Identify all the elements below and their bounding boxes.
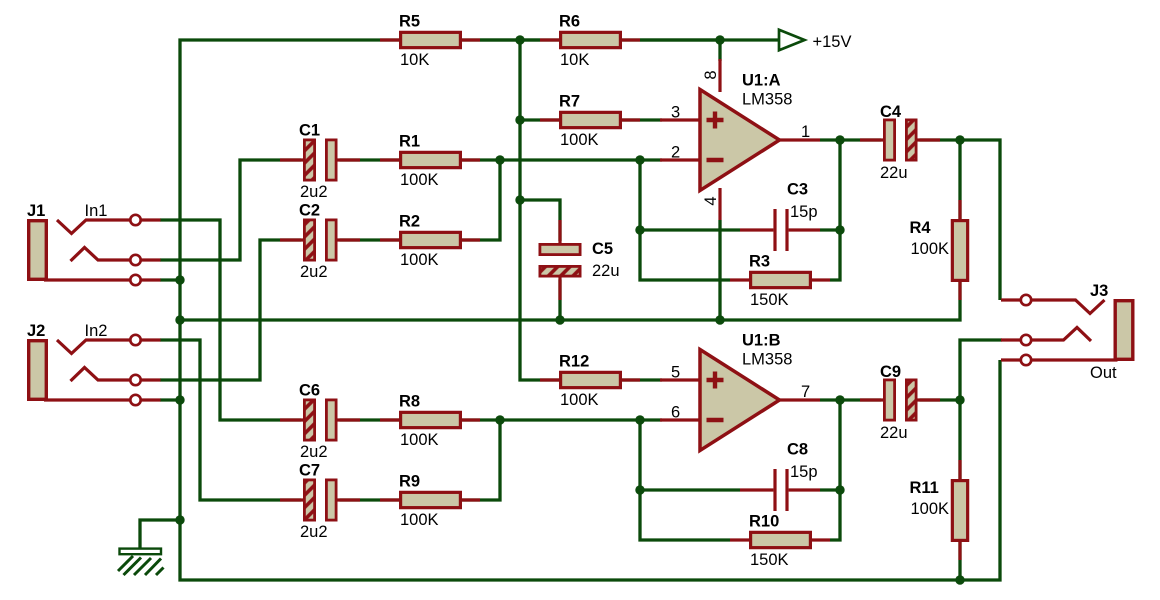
svg-text:R3: R3 [749,253,770,271]
svg-text:8: 8 [702,70,720,79]
svg-text:2u2: 2u2 [300,443,328,461]
svg-text:22u: 22u [592,262,620,280]
svg-text:10K: 10K [560,51,589,69]
svg-text:J1: J1 [27,202,45,220]
svg-text:5: 5 [671,364,680,382]
svg-text:C7: C7 [299,462,320,480]
svg-text:C1: C1 [299,122,320,140]
svg-text:15p: 15p [790,203,818,221]
svg-text:100K: 100K [400,511,439,529]
svg-text:15p: 15p [790,463,818,481]
svg-text:6: 6 [671,404,680,422]
svg-text:U1:B: U1:B [742,332,781,350]
svg-text:R11: R11 [910,479,939,497]
svg-text:150K: 150K [750,551,789,569]
svg-text:100K: 100K [911,240,950,258]
svg-text:R4: R4 [910,219,932,237]
svg-text:J3: J3 [1090,282,1108,300]
svg-text:C9: C9 [880,363,901,381]
svg-text:In1: In1 [85,202,108,220]
svg-text:22u: 22u [880,424,908,442]
svg-text:R9: R9 [399,473,420,491]
svg-text:C3: C3 [787,181,808,199]
svg-text:2u2: 2u2 [300,523,328,541]
svg-text:R8: R8 [399,393,420,411]
svg-text:2u2: 2u2 [300,263,328,281]
svg-text:J2: J2 [27,322,45,340]
svg-text:LM358: LM358 [742,91,792,109]
svg-text:C6: C6 [299,382,320,400]
svg-text:LM358: LM358 [742,351,792,369]
svg-text:2: 2 [671,144,680,162]
svg-text:7: 7 [801,383,810,401]
svg-text:100K: 100K [560,391,599,409]
svg-text:150K: 150K [750,291,789,309]
svg-text:C5: C5 [592,240,613,258]
svg-text:100K: 100K [911,500,950,518]
svg-text:100K: 100K [560,131,599,149]
svg-text:R2: R2 [399,213,420,231]
svg-text:100K: 100K [400,251,439,269]
svg-text:R5: R5 [399,13,420,31]
svg-text:10K: 10K [400,51,429,69]
svg-text:U1:A: U1:A [742,72,781,90]
svg-text:3: 3 [671,104,680,122]
svg-text:100K: 100K [400,171,439,189]
svg-text:+15V: +15V [813,33,852,51]
svg-text:R10: R10 [749,513,779,531]
svg-text:C4: C4 [880,103,902,121]
svg-text:2u2: 2u2 [300,183,328,201]
svg-text:1: 1 [801,123,810,141]
svg-text:C2: C2 [299,202,320,220]
svg-text:R6: R6 [559,13,580,31]
svg-text:R1: R1 [399,133,420,151]
svg-text:C8: C8 [787,441,808,459]
svg-text:100K: 100K [400,431,439,449]
svg-text:4: 4 [702,196,720,205]
svg-text:22u: 22u [880,164,908,182]
svg-text:Out: Out [1090,364,1117,382]
svg-text:R7: R7 [559,93,580,111]
svg-text:In2: In2 [85,322,108,340]
svg-text:R12: R12 [559,353,589,371]
